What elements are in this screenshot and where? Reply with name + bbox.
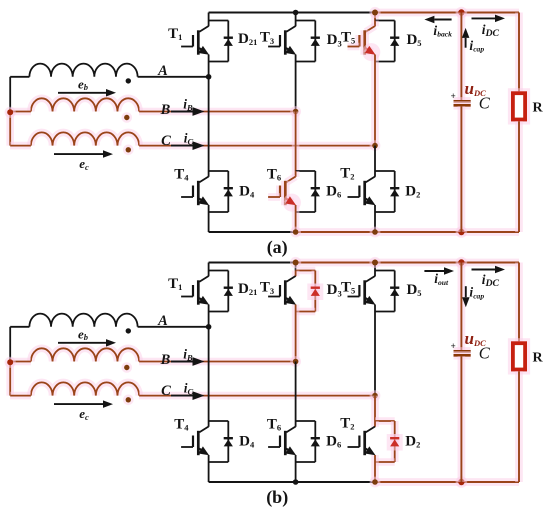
- transistor T5: [374, 271, 376, 277]
- wire top DC bus (black segment): [209, 262, 296, 264]
- node top bus leg3: [369, 257, 380, 268]
- wire neutral vertical (lower): [6, 112, 14, 146]
- wire bottom DC bus (black segment): [209, 481, 375, 483]
- arrow e_b direction: [58, 92, 106, 94]
- igbt T1 cell frame: [209, 270, 229, 272]
- arrow i_out: [424, 270, 444, 272]
- arrow e_b direction: [58, 342, 106, 344]
- igbt T6 cell frame: [296, 420, 316, 422]
- capacitor C plates: [454, 347, 471, 355]
- svg-text:iC: iC: [184, 380, 194, 396]
- node neutral junction: [5, 357, 16, 368]
- node phase A junction: [206, 74, 212, 80]
- wire leg2 upper mid: [292, 312, 300, 362]
- wire leg1 top stub: [208, 13, 210, 21]
- node top bus leg3: [369, 7, 380, 18]
- diode D4: [224, 187, 233, 189]
- svg-text:C: C: [161, 133, 171, 149]
- node bottom bus leg2: [293, 479, 299, 485]
- node top bus capacitor: [456, 7, 468, 19]
- wire leg3 bottom stub: [371, 462, 379, 482]
- svg-text:iB: iB: [183, 96, 193, 112]
- svg-text:T5: T5: [341, 280, 355, 296]
- svg-text:(a): (a): [267, 237, 288, 258]
- wire phase B line: [139, 108, 296, 116]
- wire bottom DC bus (highlighted segment): [375, 478, 519, 486]
- arrow i_DC: [472, 269, 496, 271]
- diode D6: [311, 437, 320, 439]
- transistor T2: [371, 421, 379, 427]
- igbt T3 cell frame: [296, 20, 316, 22]
- svg-text:D4: D4: [239, 433, 255, 449]
- svg-text:ec: ec: [79, 156, 89, 172]
- wire resistor branch lower: [515, 371, 523, 482]
- svg-text:B: B: [160, 352, 171, 368]
- polarity dot phase-a: [126, 78, 131, 83]
- wire leg1 mid: [208, 62, 210, 172]
- svg-text:T2: T2: [340, 165, 354, 181]
- wire resistor branch lower: [515, 121, 523, 232]
- transistor T4: [208, 171, 210, 177]
- polarity dot phase-b: [122, 362, 133, 373]
- svg-text:(b): (b): [266, 487, 288, 508]
- svg-text:D3: D3: [327, 282, 342, 298]
- svg-text:T3: T3: [260, 30, 274, 46]
- transistor T3: [295, 21, 297, 27]
- svg-text:iC: iC: [184, 130, 194, 146]
- svg-text:iB: iB: [183, 346, 193, 362]
- arrow i_DC: [472, 17, 496, 19]
- svg-text:T5: T5: [341, 30, 355, 46]
- arrow i_C: [171, 145, 193, 147]
- node phase C junction: [370, 390, 381, 401]
- transistor T6: [295, 421, 297, 427]
- igbt T2 cell frame: [375, 170, 395, 172]
- wire neutral vertical (upper, black): [9, 77, 11, 112]
- diode D5: [390, 287, 399, 289]
- wire capacitor branch upper: [458, 13, 466, 101]
- node bottom bus capacitor: [456, 226, 468, 238]
- node bottom bus leg2: [290, 227, 301, 238]
- wire bottom DC bus (highlighted segment): [296, 228, 519, 236]
- wire phase C line: [139, 392, 375, 400]
- wire top DC bus (highlighted segment): [375, 9, 519, 17]
- svg-text:A: A: [157, 63, 168, 79]
- transistor T4: [208, 421, 210, 427]
- wire leg3 upper mid: [374, 312, 376, 396]
- polarity dot phase-b: [122, 112, 133, 123]
- wire phase A line: [138, 76, 209, 78]
- wire capacitor branch upper: [458, 263, 466, 351]
- wire neutral vertical (lower): [6, 362, 14, 396]
- svg-text:R: R: [532, 351, 543, 366]
- node bottom bus leg3: [370, 477, 381, 488]
- igbt T4 cell frame: [209, 170, 229, 172]
- resistor R body: [508, 338, 530, 374]
- svg-text:D3: D3: [327, 32, 342, 48]
- arrow i_back: [434, 19, 451, 21]
- svg-text:D6: D6: [326, 184, 341, 200]
- wire leg3 lower mid: [371, 396, 379, 421]
- transistor T1: [208, 21, 210, 27]
- svg-text:T4: T4: [174, 416, 189, 432]
- node bottom bus capacitor: [456, 476, 468, 488]
- arrow i_C: [171, 395, 193, 397]
- wire leg2 bottom stub: [292, 212, 300, 232]
- wire neutral vertical (upper, black): [9, 327, 11, 362]
- arrow i_B: [171, 111, 193, 113]
- inductor phase-b winding: [31, 98, 139, 111]
- inductor phase-b winding: [31, 348, 139, 361]
- arrow i_cap: [465, 38, 467, 48]
- node top bus leg2: [290, 257, 301, 268]
- svg-text:T6: T6: [267, 167, 281, 183]
- svg-text:iDC: iDC: [482, 272, 500, 289]
- diode D6: [311, 187, 320, 189]
- igbt T3 cell frame (diode path highlighted): [296, 267, 316, 275]
- svg-text:+: +: [451, 91, 456, 101]
- polarity dot phase-a: [126, 328, 131, 333]
- diode D21: [224, 37, 233, 39]
- wire leg2 upper mid: [295, 62, 297, 112]
- wire capacitor branch lower: [458, 356, 466, 482]
- wire leg1 mid: [208, 312, 210, 422]
- wire leg3 top stub: [371, 13, 379, 21]
- igbt T4 cell frame: [209, 420, 229, 422]
- svg-text:D21: D21: [238, 281, 257, 297]
- transistor T2: [374, 171, 376, 177]
- resistor R body: [508, 88, 530, 124]
- svg-text:eb: eb: [78, 326, 88, 342]
- svg-text:D5: D5: [406, 282, 421, 298]
- svg-text:T4: T4: [174, 166, 189, 182]
- polarity dot phase-c: [123, 145, 134, 156]
- diode D21: [224, 287, 233, 289]
- inductor phase-a winding: [29, 314, 137, 327]
- wire leg2 top stub: [295, 263, 297, 271]
- wire phase B line: [139, 358, 296, 366]
- wire leg1 bottom stub: [208, 462, 210, 482]
- node top bus leg2: [293, 10, 299, 16]
- wire phase A line: [138, 326, 209, 328]
- svg-text:D6: D6: [326, 434, 341, 450]
- wire leg2 lower mid: [292, 112, 300, 172]
- diode D3 (conducting): [307, 284, 323, 301]
- node phase B junction: [290, 106, 301, 117]
- transistor T3: [292, 271, 300, 277]
- svg-text:D5: D5: [406, 32, 421, 48]
- igbt T6 cell frame: [296, 170, 316, 172]
- inductor phase-c winding: [31, 132, 139, 145]
- wire top DC bus (highlighted segment): [296, 259, 519, 267]
- svg-text:D21: D21: [238, 31, 257, 47]
- svg-text:T1: T1: [168, 26, 182, 42]
- igbt T2 cell frame (diode path highlighted): [375, 417, 395, 425]
- wire top DC bus (black segment): [209, 12, 375, 14]
- svg-text:icap: icap: [469, 38, 484, 54]
- wire leg3 top stub: [374, 263, 376, 271]
- svg-text:+: +: [451, 341, 456, 351]
- diode D3: [311, 37, 320, 39]
- node neutral junction: [5, 107, 16, 118]
- node phase C junction: [370, 140, 381, 151]
- wire leg1 bottom stub: [208, 212, 210, 232]
- diode D2: [390, 187, 399, 189]
- wire phase C line: [139, 142, 375, 150]
- diode D2 (conducting): [387, 434, 403, 451]
- wire bottom DC bus (black segment): [209, 231, 296, 233]
- capacitor C plates: [454, 97, 471, 105]
- arrow i_cap: [465, 286, 467, 297]
- svg-text:iback: iback: [433, 23, 452, 39]
- wire capacitor branch lower: [458, 106, 466, 232]
- node bottom bus leg3: [370, 227, 381, 238]
- svg-text:T1: T1: [168, 276, 182, 292]
- wire leg2 lower mid: [295, 362, 297, 422]
- node phase A junction: [206, 324, 212, 330]
- arrow i_B: [171, 361, 193, 363]
- svg-text:ec: ec: [79, 406, 89, 422]
- transistor T6 (conducting): [292, 171, 300, 177]
- svg-text:C: C: [161, 383, 171, 399]
- transistor T1: [208, 271, 210, 277]
- wire leg3 lower mid: [374, 146, 376, 171]
- svg-text:T3: T3: [260, 280, 274, 296]
- wire leg1 top stub: [208, 263, 210, 271]
- svg-text:D2: D2: [405, 434, 420, 450]
- svg-text:A: A: [157, 313, 168, 329]
- svg-text:eb: eb: [78, 76, 88, 92]
- svg-text:C: C: [479, 93, 491, 112]
- svg-text:R: R: [532, 101, 543, 116]
- svg-text:T2: T2: [340, 415, 354, 431]
- inductor phase-a winding: [29, 64, 137, 77]
- wire leg2 top stub: [295, 13, 297, 21]
- wire resistor branch upper: [515, 13, 523, 92]
- svg-text:D2: D2: [405, 184, 420, 200]
- svg-text:iDC: iDC: [482, 22, 500, 39]
- node top bus capacitor: [456, 257, 468, 269]
- inductor phase-c winding: [31, 382, 139, 395]
- igbt T5 cell frame: [375, 20, 395, 22]
- igbt T1 cell frame: [209, 20, 229, 22]
- wire leg3 bottom stub: [374, 212, 376, 232]
- polarity dot phase-c: [123, 395, 134, 406]
- diode D4: [224, 437, 233, 439]
- svg-text:T6: T6: [267, 417, 281, 433]
- wire leg3 upper mid: [371, 62, 379, 146]
- svg-text:D4: D4: [239, 183, 255, 199]
- svg-text:C: C: [479, 343, 491, 362]
- node phase B junction: [290, 356, 301, 367]
- arrow e_c direction: [54, 153, 103, 155]
- diode D5: [390, 37, 399, 39]
- arrow e_c direction: [54, 403, 103, 405]
- igbt T5 cell frame: [375, 270, 395, 272]
- wire resistor branch upper: [515, 263, 523, 342]
- transistor T5 (conducting): [371, 21, 379, 27]
- wire leg2 bottom stub: [295, 462, 297, 482]
- svg-text:B: B: [160, 102, 171, 118]
